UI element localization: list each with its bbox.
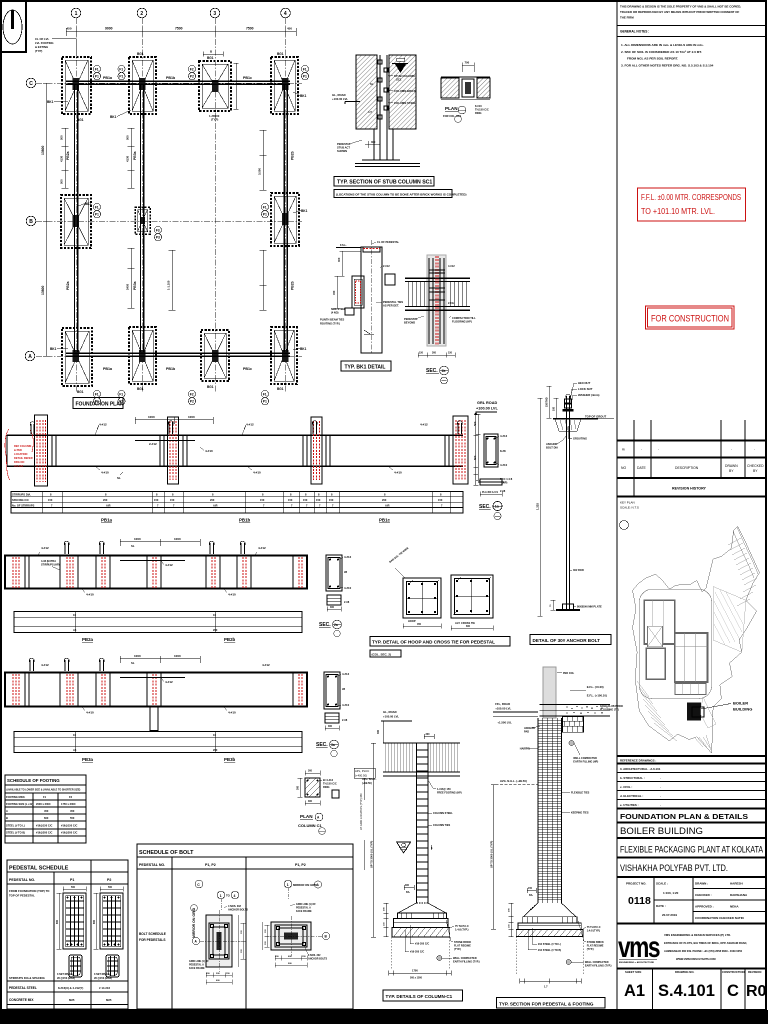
svg-text:P1: P1 bbox=[263, 213, 267, 217]
svg-text:DETAIL REFER: DETAIL REFER bbox=[14, 456, 33, 460]
FFL red note box bbox=[638, 188, 746, 221]
TITLE BLOCK bbox=[617, 5, 766, 68]
svg-text:BOILER: BOILER bbox=[733, 701, 748, 706]
svg-text:ANCHOR BOLTS: ANCHOR BOLTS bbox=[228, 909, 248, 912]
svg-text:DRAWN :: DRAWN : bbox=[695, 882, 708, 886]
bottom dims bbox=[275, 956, 307, 961]
svg-text:PLA 300 A.V.S: PLA 300 A.V.S bbox=[482, 491, 498, 494]
svg-text:450: 450 bbox=[287, 27, 292, 31]
label box bbox=[530, 635, 611, 645]
dim bbox=[327, 607, 341, 612]
svg-text:BUILDING: BUILDING bbox=[733, 707, 752, 712]
top dimension 1000/1000 bbox=[135, 417, 213, 424]
1 TO 4 circles bbox=[217, 891, 225, 899]
svg-text:9000: 9000 bbox=[105, 27, 113, 31]
svg-text:BK1: BK1 bbox=[47, 100, 54, 104]
svg-text:COLUMN STEEL: COLUMN STEEL bbox=[394, 101, 416, 105]
svg-text:2-#8: 2-#8 bbox=[344, 600, 350, 604]
red dashed bars in stub 1 bbox=[37, 420, 46, 482]
mid dim chains col1 bbox=[62, 128, 69, 188]
svg-text:F3: F3 bbox=[156, 229, 160, 233]
svg-text:PEDESTAL: PEDESTAL bbox=[404, 317, 418, 321]
red dashed bars in stub 3 bbox=[314, 421, 320, 480]
lap line bbox=[120, 560, 185, 562]
svg-text:1.7: 1.7 bbox=[544, 985, 548, 989]
grid circle C top bbox=[195, 880, 203, 888]
svg-text:700: 700 bbox=[465, 61, 470, 65]
top dim bbox=[120, 539, 200, 546]
svg-text:(+400.50): (+400.50) bbox=[355, 774, 367, 778]
dashed extension bbox=[392, 937, 450, 970]
svg-text:SEC.: SEC. bbox=[479, 504, 491, 510]
bottom dimension bbox=[520, 979, 582, 984]
column bottom hatch tick bbox=[364, 330, 370, 334]
svg-text:PB3a: PB3a bbox=[133, 281, 137, 290]
svg-text:WASHER (4mm): WASHER (4mm) bbox=[578, 393, 600, 397]
svg-text:NO: NO bbox=[621, 466, 626, 470]
svg-text:#8: #8 bbox=[342, 687, 346, 691]
svg-text:4130: 4130 bbox=[126, 155, 130, 162]
grid line 2 centerline bbox=[141, 18, 143, 392]
svg-text:#16 STEEL (// TO L): #16 STEEL (// TO L) bbox=[538, 943, 561, 946]
PB2 BEAM ELEVATION bbox=[5, 537, 307, 642]
svg-text:PB3b: PB3b bbox=[224, 757, 236, 762]
svg-text:2-#12: 2-#12 bbox=[149, 442, 157, 446]
svg-text:AT GRID LOCATION (TYP) 450: AT GRID LOCATION (TYP) 450 bbox=[359, 793, 363, 830]
svg-text:80X80X6 MM PLATE: 80X80X6 MM PLATE bbox=[577, 605, 602, 609]
svg-text:500: 500 bbox=[473, 421, 477, 426]
svg-text:FROM NGL AS PER SOIL REPORT.: FROM NGL AS PER SOIL REPORT. bbox=[627, 57, 678, 61]
svg-text:1000: 1000 bbox=[134, 654, 141, 658]
svg-text:300: 300 bbox=[426, 733, 431, 736]
beam top line bbox=[7, 434, 463, 436]
APL PLCC note top right of bolt schedule bbox=[354, 768, 375, 870]
svg-text:F1: F1 bbox=[95, 206, 99, 210]
PEDESTAL AND FOOTING SECTION bbox=[490, 667, 624, 1008]
lap bar line bbox=[135, 440, 195, 442]
svg-text:1:100, 1:20: 1:100, 1:20 bbox=[663, 891, 679, 895]
south row bbox=[675, 684, 706, 695]
svg-text:SL: SL bbox=[131, 661, 135, 665]
svg-text:R0: R0 bbox=[746, 983, 767, 1000]
svg-text:300: 300 bbox=[308, 770, 313, 773]
footing A4 bbox=[271, 327, 297, 384]
beam body bbox=[5, 673, 307, 707]
svg-text:SL: SL bbox=[117, 476, 121, 480]
plan rails bbox=[14, 732, 302, 753]
svg-text:1000: 1000 bbox=[134, 537, 141, 541]
svg-text:STIRRUPS (HP)): STIRRUPS (HP)) bbox=[41, 564, 60, 567]
svg-text:#16 STEEL (// TO B): #16 STEEL (// TO B) bbox=[538, 949, 561, 952]
svg-text:1000: 1000 bbox=[148, 415, 155, 419]
bottom-left hatch strip bbox=[637, 681, 677, 741]
BK1 label box bbox=[341, 361, 391, 371]
pedestal plan horizontal bbox=[271, 922, 311, 950]
STUB COLUMN PLAN DETAIL bbox=[441, 61, 490, 123]
column outline bbox=[361, 247, 382, 353]
svg-text:TYP. DETAIL OF HOOP AND CROSS: TYP. DETAIL OF HOOP AND CROSS TIE FOR PE… bbox=[372, 640, 495, 645]
small dim left of column bbox=[404, 885, 414, 890]
svg-text:E.F.L. (±0.00): E.F.L. (±0.00) bbox=[587, 685, 604, 689]
cell 2 drawing bbox=[262, 880, 330, 967]
svg-text:300: 300 bbox=[328, 725, 333, 728]
black stirrups bbox=[25, 673, 293, 706]
svg-text:600: 600 bbox=[44, 816, 49, 820]
footing C1 bbox=[62, 57, 91, 114]
label box bbox=[496, 998, 605, 1009]
svg-text:PB1b: PB1b bbox=[166, 367, 176, 371]
svg-text:PAD: PAD bbox=[524, 731, 529, 734]
svg-text:#16@150 C/C: #16@150 C/C bbox=[36, 824, 52, 828]
svg-text:13800: 13800 bbox=[41, 145, 45, 155]
svg-text:100: 100 bbox=[553, 406, 556, 411]
svg-text:8-#16(X) & 4-#12(Y): 8-#16(X) & 4-#12(Y) bbox=[58, 986, 83, 990]
svg-text:REVISION: REVISION bbox=[748, 970, 761, 974]
svg-text:150/THD: 150/THD bbox=[546, 397, 549, 407]
svg-text:450: 450 bbox=[70, 809, 75, 813]
svg-text:SCALE: N.T.S: SCALE: N.T.S bbox=[620, 506, 639, 510]
svg-text:FOR PEDESTALS: FOR PEDESTALS bbox=[139, 938, 166, 942]
svg-text:P1: P1 bbox=[70, 878, 74, 882]
svg-text:CONSTRUCTION: CONSTRUCTION bbox=[722, 970, 745, 974]
beam bottom line bbox=[7, 465, 463, 467]
svg-text:4: 4 bbox=[234, 894, 236, 898]
svg-text:1: 1 bbox=[75, 11, 78, 17]
svg-text:200: 200 bbox=[210, 498, 215, 502]
top right hatch marks bbox=[728, 538, 757, 606]
svg-text:500: 500 bbox=[60, 135, 64, 140]
red dashed top marker bbox=[363, 248, 380, 250]
pedestal plan bbox=[206, 915, 232, 967]
svg-text:(TYP): (TYP) bbox=[211, 118, 218, 122]
small dim left bbox=[527, 888, 536, 893]
SEC 3a bbox=[316, 672, 350, 757]
svg-text:FLEXIBLE PACKAGING PLANT AT KO: FLEXIBLE PACKAGING PLANT AT KOLKATA bbox=[620, 844, 764, 855]
svg-text:300: 300 bbox=[405, 884, 410, 887]
SEC 1a cross section bbox=[473, 412, 513, 520]
svg-text:3. FOR ALL OTHER NOTES REFER: 3. FOR ALL OTHER NOTES REFER DRG. NO. S.… bbox=[621, 64, 714, 68]
svg-text:FACE FRAME: FACE FRAME bbox=[189, 967, 205, 970]
svg-text:2a: 2a bbox=[334, 623, 338, 627]
svg-text:# 14-#16: # 14-#16 bbox=[99, 986, 110, 990]
svg-text:4-#10: 4-#10 bbox=[101, 471, 109, 475]
svg-text:1000: 1000 bbox=[188, 415, 195, 419]
hook symbols above beam bbox=[30, 421, 462, 434]
right hoop bbox=[451, 575, 493, 631]
reference drawings rows bbox=[617, 756, 766, 809]
svg-text:MIRROR ON GRID: MIRROR ON GRID bbox=[293, 883, 317, 887]
svg-text:1:4:8 (TYP.): 1:4:8 (TYP.) bbox=[455, 929, 469, 932]
svg-text:A: A bbox=[28, 354, 32, 360]
svg-text:CHECKED: CHECKED bbox=[747, 464, 764, 468]
footing C3 bbox=[199, 61, 231, 111]
column 2 plinth beam bbox=[140, 85, 143, 352]
svg-text:150: 150 bbox=[316, 498, 321, 502]
svg-text:GL, ROAD: GL, ROAD bbox=[383, 710, 397, 714]
svg-text:NEHA: NEHA bbox=[730, 905, 739, 909]
svg-text:DETAIL OF 30# ANCHOR BOLT: DETAIL OF 30# ANCHOR BOLT bbox=[533, 638, 601, 643]
svg-text:300: 300 bbox=[297, 785, 300, 790]
svg-text:DRAWING NO.: DRAWING NO. bbox=[675, 970, 694, 974]
svg-text:P2: P2 bbox=[190, 400, 194, 404]
svg-text:550: 550 bbox=[70, 816, 75, 820]
svg-text:PB3a: PB3a bbox=[133, 151, 137, 160]
svg-text:FREE FOOTING (HP): FREE FOOTING (HP) bbox=[437, 792, 462, 795]
svg-text:2-#8: 2-#8 bbox=[500, 489, 506, 493]
svg-text:CL OF PEDESTAL: CL OF PEDESTAL bbox=[377, 240, 400, 244]
svg-text:4-#12: 4-#12 bbox=[165, 563, 173, 567]
red outline annotation left bbox=[5, 429, 10, 480]
footing A3 bbox=[201, 330, 229, 381]
svg-text:PEDESTAL NO.: PEDESTAL NO. bbox=[9, 878, 35, 882]
footing mark circles B4 bbox=[261, 203, 268, 217]
svg-text:GROUTING: GROUTING bbox=[573, 437, 587, 441]
svg-text:4-#12: 4-#12 bbox=[99, 423, 107, 427]
svg-text:BG1: BG1 bbox=[277, 52, 284, 56]
bracket left bbox=[352, 276, 364, 308]
footing A2 bbox=[129, 327, 156, 384]
svg-text:4-#10: 4-#10 bbox=[253, 471, 261, 475]
footing mark circles B2 bbox=[154, 226, 161, 240]
top dim 700 bbox=[462, 63, 474, 73]
svg-text:#8 @150 (MAX): #8 @150 (MAX) bbox=[94, 977, 112, 980]
top small dim rotated label bbox=[547, 386, 552, 418]
svg-text:150: 150 bbox=[288, 498, 293, 502]
svg-text:BG1: BG1 bbox=[277, 387, 284, 391]
drawing number row bbox=[624, 969, 767, 1011]
svg-text:F1: F1 bbox=[95, 68, 99, 72]
svg-text:PB3a: PB3a bbox=[82, 757, 94, 762]
bolt top nuts bbox=[566, 394, 570, 398]
svg-text:+100.00 LVL: +100.00 LVL bbox=[332, 97, 348, 101]
building block B lower-left bbox=[646, 648, 665, 679]
PB1 BEAM ELEVATION bbox=[5, 415, 468, 523]
svg-text:-: - bbox=[660, 794, 661, 798]
svg-text:E.F.L. (+100.10): E.F.L. (+100.10) bbox=[587, 694, 607, 698]
svg-text:UP TO 3000 LVL (TYP): UP TO 3000 LVL (TYP) bbox=[490, 841, 494, 868]
red dashed bar groups bbox=[13, 557, 302, 588]
svg-text:(TYP.): (TYP.) bbox=[587, 948, 594, 951]
svg-text:PEDESTAL NO.: PEDESTAL NO. bbox=[139, 863, 165, 867]
svg-text:UP TO 3000 LVL (TYP): UP TO 3000 LVL (TYP) bbox=[370, 841, 374, 868]
grid bubble A bbox=[25, 351, 35, 361]
svg-text:DESCRIPTION: DESCRIPTION bbox=[675, 466, 699, 470]
svg-text:+1.500 LVL: +1.500 LVL bbox=[497, 721, 512, 725]
svg-text:PB1a: PB1a bbox=[101, 518, 113, 523]
north arrow box bbox=[1, 1, 26, 52]
svg-text:P1: P1 bbox=[95, 213, 99, 217]
svg-text:P2: P2 bbox=[190, 75, 194, 79]
svg-text:REVISION HISTORY: REVISION HISTORY bbox=[672, 487, 707, 491]
svg-text:150: 150 bbox=[448, 352, 453, 355]
footing B2 small bbox=[135, 207, 150, 234]
grouting leader bbox=[568, 426, 572, 438]
svg-text:COLUMN C1: COLUMN C1 bbox=[298, 823, 323, 828]
red dashed bars in stub 2 bbox=[170, 421, 176, 480]
svg-text:(TYP.): (TYP.) bbox=[454, 948, 461, 951]
svg-text:-: - bbox=[754, 448, 755, 452]
svg-text:TYP. SECTION FOR PEDESTAL & FO: TYP. SECTION FOR PEDESTAL & FOOTING bbox=[499, 1001, 594, 1006]
svg-text:300: 300 bbox=[330, 606, 335, 609]
tall left dim bbox=[373, 743, 375, 937]
top cap bbox=[363, 247, 380, 252]
ghost column above bbox=[543, 667, 556, 718]
svg-text:#16-200 C/C: #16-200 C/C bbox=[415, 943, 429, 946]
footing B1 bbox=[61, 195, 91, 248]
svg-text:TYP. BK1 DETAIL: TYP. BK1 DETAIL bbox=[345, 365, 386, 371]
svg-text:THIS DRAWING & DESIGN IS THE S: THIS DRAWING & DESIGN IS THE SOLE PROPER… bbox=[620, 5, 741, 9]
left dim chain bbox=[509, 903, 514, 937]
small road tail bbox=[700, 697, 716, 728]
svg-text:A1: A1 bbox=[624, 982, 645, 1000]
bottom small dim bbox=[551, 600, 556, 610]
svg-text:PB2b: PB2b bbox=[291, 281, 295, 290]
svg-text:BOLT DIA: BOLT DIA bbox=[546, 446, 558, 450]
svg-text:P1: P1 bbox=[95, 75, 99, 79]
svg-text:e. UTILITIES :: e. UTILITIES : bbox=[620, 803, 639, 807]
svg-text:PB2a: PB2a bbox=[66, 151, 70, 160]
svg-text:500: 500 bbox=[71, 886, 76, 889]
svg-text:3.500: 3.500 bbox=[258, 168, 262, 175]
svg-text:4: 4 bbox=[284, 11, 287, 17]
column 4 plinth beam bbox=[284, 85, 287, 352]
washer plate / top of grout line bbox=[553, 418, 598, 420]
svg-text:-: - bbox=[660, 776, 661, 780]
hoop below bbox=[69, 955, 82, 977]
svg-text:BY: BY bbox=[753, 469, 758, 473]
footing mark circles A2 bbox=[118, 390, 125, 404]
column stub 3 bbox=[311, 417, 322, 484]
grid bubble 4 bbox=[281, 8, 291, 18]
column stub 4 bbox=[453, 416, 468, 484]
svg-text:ANCHOR BOLTS: ANCHOR BOLTS bbox=[308, 958, 327, 961]
PCC hatched bbox=[516, 929, 583, 936]
HOOP AND CROSS TIE DETAIL bbox=[370, 546, 510, 657]
svg-text:b. STRUCTURAL :: b. STRUCTURAL : bbox=[620, 776, 645, 780]
svg-text:PB1b: PB1b bbox=[166, 76, 176, 80]
svg-text:4-#12: 4-#12 bbox=[342, 672, 350, 676]
svg-text:WWW.VMSCONSULTANTS.COM: WWW.VMSCONSULTANTS.COM bbox=[676, 957, 716, 961]
svg-text:P2: P2 bbox=[107, 878, 111, 882]
svg-text:REF COLUMN: REF COLUMN bbox=[14, 444, 31, 448]
PCC below bbox=[480, 479, 502, 485]
svg-text:4-#10: 4-#10 bbox=[394, 471, 402, 475]
site boundary polygon bbox=[633, 526, 760, 753]
svg-text:RING: RING bbox=[475, 111, 481, 115]
mid dim col4 bbox=[260, 130, 267, 190]
row A plinth beam bbox=[66, 353, 290, 356]
svg-text:150: 150 bbox=[48, 498, 53, 502]
svg-text:SC1: SC1 bbox=[396, 78, 402, 82]
svg-text:300: 300 bbox=[377, 729, 380, 734]
svg-text:1:4:8 (TYP.): 1:4:8 (TYP.) bbox=[587, 930, 601, 933]
svg-text:P1, P2: P1, P2 bbox=[205, 863, 216, 867]
svg-text:150: 150 bbox=[528, 887, 533, 890]
svg-text:STIRRUPS DIA.: STIRRUPS DIA. bbox=[12, 493, 31, 497]
red dashed bars bbox=[436, 256, 438, 345]
mid dim chains col2 bbox=[128, 128, 135, 188]
grid bubble C bbox=[26, 78, 36, 88]
top ticks bbox=[429, 270, 445, 300]
svg-text:LOCATION: LOCATION bbox=[14, 452, 27, 456]
flare bbox=[523, 903, 576, 917]
svg-text:No. OF STIRRUPS: No. OF STIRRUPS bbox=[12, 503, 35, 507]
svg-text:800: 800 bbox=[93, 919, 96, 924]
svg-text:150: 150 bbox=[260, 498, 265, 502]
svg-text:CHECKED :: CHECKED : bbox=[695, 893, 712, 897]
svg-text:(4 NO): (4 NO) bbox=[331, 312, 339, 315]
svg-text:COLUMN BRICK: COLUMN BRICK bbox=[394, 89, 416, 93]
small square right bbox=[332, 790, 339, 798]
right dims bbox=[238, 915, 246, 967]
FOUNDATION PLAN bbox=[25, 8, 344, 408]
svg-text:300: 300 bbox=[371, 140, 376, 144]
svg-text:4-#10: 4-#10 bbox=[228, 593, 236, 597]
svg-text:PB2a: PB2a bbox=[66, 281, 70, 290]
left dims bbox=[335, 251, 362, 308]
svg-text:300: 300 bbox=[308, 800, 313, 803]
svg-text:4-#12: 4-#12 bbox=[420, 423, 428, 427]
svg-text:4-#12: 4-#12 bbox=[165, 680, 173, 684]
P2 pedestal section bbox=[93, 886, 123, 977]
FOUNDATION PLAN label bbox=[73, 398, 124, 409]
flare bbox=[398, 903, 446, 913]
svg-text:1b: 1b bbox=[442, 369, 446, 373]
footing B4 bbox=[271, 193, 299, 246]
SCHEDULE OF BOLT TABLE bbox=[137, 844, 353, 1009]
stub column bars center bbox=[378, 55, 388, 160]
svg-text:+100.00 LVL: +100.00 LVL bbox=[476, 407, 498, 411]
road loop bbox=[639, 589, 711, 698]
svg-text:C: C bbox=[727, 982, 739, 1000]
red dashed bar groups bbox=[13, 674, 302, 706]
column stub 2 bbox=[168, 417, 179, 484]
svg-text:F.S.L.: F.S.L. bbox=[340, 243, 347, 247]
svg-text:300: 300 bbox=[337, 257, 341, 262]
svg-text:2000 x 2000: 2000 x 2000 bbox=[36, 802, 51, 806]
svg-text:SHOWN: SHOWN bbox=[337, 149, 347, 153]
svg-text:B: B bbox=[6, 816, 8, 820]
svg-text:DATE :: DATE : bbox=[656, 904, 666, 908]
svg-text:STIRRUPS DIA & SPACING: STIRRUPS DIA & SPACING bbox=[9, 976, 45, 980]
stirrup verticals bbox=[408, 282, 466, 307]
mid dim col2 lower bbox=[128, 248, 135, 308]
svg-text:PB1b: PB1b bbox=[239, 518, 251, 523]
svg-text:FLOORING (TY): FLOORING (TY) bbox=[600, 709, 619, 712]
grid line 3 centerline bbox=[214, 18, 216, 392]
svg-text:2-#8: 2-#8 bbox=[342, 718, 348, 722]
dashed extension bbox=[516, 937, 583, 975]
svg-text:3 SET RINGS: 3 SET RINGS bbox=[94, 973, 110, 976]
PEDESTAL SCHEDULE TABLE bbox=[7, 860, 128, 1009]
svg-text:M25: M25 bbox=[69, 998, 75, 1002]
svg-text:TO +101.10 MTR. LVL.: TO +101.10 MTR. LVL. bbox=[641, 206, 715, 216]
lower shelf bbox=[345, 308, 354, 315]
label box bbox=[370, 637, 510, 647]
PCC hatched bbox=[392, 928, 450, 937]
svg-text:4-#12: 4-#12 bbox=[448, 264, 455, 268]
svg-text:450: 450 bbox=[67, 27, 72, 31]
footing mark circles C2 bbox=[118, 65, 125, 79]
svg-text:FOUNDATION PLAN & DETAILS: FOUNDATION PLAN & DETAILS bbox=[620, 812, 748, 821]
left dim chain bbox=[43, 83, 50, 356]
key plan area bbox=[620, 521, 760, 754]
svg-text:#16@200 C/C: #16@200 C/C bbox=[61, 831, 77, 835]
footing top band with dowels bbox=[523, 917, 577, 923]
svg-text:-: - bbox=[660, 785, 661, 789]
svg-text:THE FIRM: THE FIRM bbox=[620, 16, 634, 20]
svg-text:4-#12: 4-#12 bbox=[246, 423, 254, 427]
